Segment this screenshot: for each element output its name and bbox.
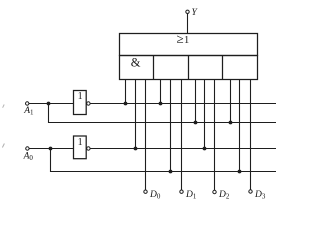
node gate4 input1 on A1 [229, 121, 233, 125]
node gate3 input1 on A1 [194, 121, 198, 125]
terminal A1 [26, 102, 29, 105]
wire A0 drop [51, 149, 277, 172]
wire Y output [187, 14, 189, 34]
node gate2 input2 on A0 [169, 170, 173, 174]
wire gate4 input2 [239, 80, 241, 172]
svg-text:D0: D0 [149, 190, 161, 201]
node A1 junction [47, 102, 51, 106]
wire A1 drop [49, 104, 277, 123]
node gate2 input1 on /A1 [159, 102, 163, 106]
node gate3 input2 on /A0 [203, 147, 207, 151]
wire A0 to inverter [29, 148, 73, 150]
node gate4 input2 on A0 [238, 170, 242, 174]
node A0 junction [49, 147, 53, 151]
inverter U6 box [74, 91, 87, 115]
node gate1 input2 on /A0 [134, 147, 138, 151]
wire gate1 input1 [125, 80, 127, 104]
inverter U6 bubble [87, 102, 90, 105]
svg-text:D3: D3 [254, 190, 266, 201]
wire gate1 input3 D0 [145, 80, 147, 191]
svg-text:A1: A1 [23, 106, 34, 117]
wire gate2 input3 D1 [181, 80, 183, 191]
svg-text:A0: A0 [23, 151, 34, 162]
wire gate3 input3 D2 [214, 80, 216, 191]
terminal D1 [180, 190, 183, 193]
wire gate1 input2 [135, 80, 137, 149]
svg-text:D2: D2 [218, 190, 230, 201]
inverter U7 bubble [87, 147, 90, 150]
svg-text:D1: D1 [185, 190, 197, 201]
wire gate2 input1 [160, 80, 162, 104]
wire gate4 input1 [230, 80, 232, 123]
svg-text:1: 1 [78, 137, 83, 148]
wire gate3 input1 [195, 80, 197, 123]
svg-text:&: & [131, 55, 141, 69]
terminal D2 [213, 190, 216, 193]
terminal A0 [26, 147, 29, 150]
wire /A1 bus [90, 103, 276, 105]
wire A1 to inverter [29, 103, 74, 105]
terminal D3 [249, 190, 252, 193]
wire /A0 bus [90, 148, 276, 150]
scan artifact marks left edge [3, 105, 5, 108]
terminal D0 [144, 190, 147, 193]
svg-text:1: 1 [78, 91, 83, 102]
or-gate U5 box [120, 34, 258, 56]
inverter U7 box [74, 136, 87, 159]
node gate1 input1 on /A1 [124, 102, 128, 106]
and-gate row box [120, 56, 258, 80]
wire gate2 input2 [170, 80, 172, 172]
wire gate3 input2 [204, 80, 206, 149]
terminal Y [186, 10, 189, 13]
wire gate4 input3 D3 [250, 80, 252, 190]
